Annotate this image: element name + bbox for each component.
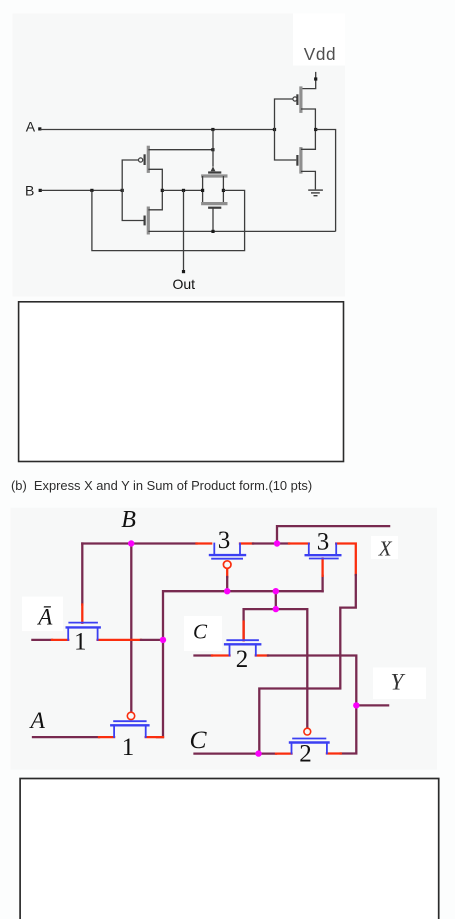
wire TG left column [202,176,204,204]
transistor 3a left post [213,544,215,556]
wire TG right column [222,176,224,204]
node w1-w2 dot [273,588,279,594]
node Vdd dot [314,77,317,80]
label Abar white patch [22,597,63,632]
wire 2a right to Y column [268,656,356,706]
svg-text:(b) Express X and Y in Sum of: (b) Express X and Y in Sum of Product fo… [11,478,312,493]
wire inverter output to bottom [316,130,336,232]
wire 3b right stub red [336,544,356,576]
transistor U4 NMOS gate plate [296,155,298,166]
wire node1 vertical [157,640,163,737]
svg-text:Y: Y [391,670,406,695]
transistor U3 PMOS channel [299,86,302,113]
wire Q1 drain stub [148,169,162,190]
wire Q1 source stub to A net [148,149,213,151]
node C dot [255,750,261,756]
svg-text:3: 3 [218,527,231,554]
transistor 2a left post [229,644,231,655]
transistor TG bottom gate plate [208,207,221,209]
CIRCUIT 1 (gray CMOS schematic) [25,44,336,292]
wire 3b gate red [321,559,323,576]
svg-text:3: 3 [317,529,330,556]
transistor Q1 PMOS channel [147,146,150,173]
wire 3b gate maroon [321,576,323,591]
node B junction dot left [90,189,93,192]
svg-text:X: X [378,536,393,560]
transistor 2b channel [290,741,329,743]
transistor TG bottom channel [201,202,227,205]
wire 1a left stub red [52,639,68,641]
transistor U3 PMOS gate plate [296,94,298,105]
node out-branch junction dot [182,189,185,192]
wire Q2 source stub / bottom rail to inverter output [148,230,335,232]
node A lead dot [38,127,41,130]
wire B drop to 1b bubble [130,544,132,713]
wire A line [40,129,275,131]
node inverter output dot [314,128,317,131]
Vdd label white patch [293,14,345,66]
wire Abar lead [32,639,52,641]
svg-text:A: A [26,119,36,135]
transistor 1b right post [145,725,147,737]
transistor Q2 NMOS gate plate [144,216,146,226]
wire 1a right to node [141,639,163,641]
transistor 1b channel [111,724,148,726]
transistor 2b bubble [304,728,311,735]
transistor 3b right post [335,544,337,556]
svg-text:A: A [29,708,46,734]
wire 3a bubble drop maroon [226,577,228,591]
node w2 dot [273,606,279,612]
wire 2b right stub red [327,752,341,754]
transistor 3b plate [310,558,338,560]
transistor 1a plate [69,622,97,624]
label scriptC white patch [184,616,222,651]
transistor 3a channel [210,554,245,556]
wire TG right terminal to B loop [92,190,245,250]
transistor Q1 PMOS gate plate [144,154,146,165]
transistor 3b left post [308,544,310,556]
transistor TG arrow [211,166,216,171]
circuit 2 background [11,508,438,770]
circuit 1 background [13,14,346,297]
node TG gate - bottom rail junction dot [211,230,214,233]
transistor 2b left post [291,743,293,754]
wire U4 NMOS source stub [301,171,315,189]
wire A lead [33,736,99,738]
transistor 2a plate [227,639,258,641]
transistor 1b left post [113,725,115,737]
node Out dot [182,270,185,273]
wire 2a gate red [242,622,244,641]
transistor TG top channel [201,174,227,177]
answer box 1 [19,302,344,462]
wire 3a left stub red [197,542,212,544]
answer box 2 [20,779,439,919]
wire middle node [162,189,202,191]
wire U4 NMOS drain stub [301,130,315,150]
wire U3 PMOS drain stub [301,109,315,130]
transistor 2b right post [326,743,328,754]
node X dot [274,540,280,546]
svg-text:B: B [121,507,136,533]
svg-text:1: 1 [74,629,87,656]
transistor 1a right post [97,627,99,640]
svg-text:Ā: Ā [36,605,53,630]
wire 3a bubble drop red [226,568,228,577]
node B gate junction dot [121,189,124,192]
wire 2a left stub red [212,654,230,656]
wire top B rail [82,542,196,544]
label Y white patch [373,668,426,700]
wire inverter gate net [275,99,297,160]
transistor 3a plate [212,558,242,560]
svg-text:B: B [25,183,34,199]
ground symbol [308,190,323,196]
transistor U4 NMOS channel [299,147,302,174]
svg-text:1: 1 [122,734,135,761]
label X white patch [371,536,398,559]
svg-text:Out: Out [173,276,196,292]
wire w2 branch [275,591,277,609]
svg-text:Vdd: Vdd [304,44,336,64]
node pass output dot [160,637,166,643]
transistor 3a bubble [223,561,231,569]
transistor 1b bubble [127,712,134,719]
transistor TG top gate plate [208,171,221,173]
wire Y column lower [341,705,357,753]
transistor 2b plate [293,738,325,740]
wire left gates net [122,160,143,221]
node 3a gate dot [224,588,230,594]
wire 1a gate red [81,605,83,623]
wire Y output lead [356,704,388,706]
wire X output [277,526,389,543]
wire w2 rail [244,609,308,728]
node drains junction dot [161,189,164,192]
wire 2a right stub red [256,654,268,656]
node TG left terminal dot [201,189,204,192]
node Y dot [353,702,359,708]
wire TG top gate [212,130,214,167]
wire B line [40,189,122,191]
wire Q2 drain stub [148,190,162,209]
svg-text:2: 2 [236,646,249,673]
transistor 3a right post [239,544,241,556]
transistor 2a right post [255,644,257,655]
wire 3b right down [259,575,356,754]
wire 1b right stub red [146,736,163,738]
wire 1a right stub red [98,639,141,641]
transistor U3 PMOS bubble [293,97,297,101]
transistor Q2 NMOS channel [147,207,150,235]
node A-TG junction dot [211,128,214,131]
transistor 1a channel [67,626,100,628]
wire Vdd lead [301,72,316,89]
node TG right terminal dot [222,189,225,192]
wire 1b left stub red [99,736,114,738]
node B dot [128,540,134,546]
transistor 2a channel [225,643,260,645]
node Q1-A junction dot [211,148,214,151]
svg-text:C: C [190,725,208,754]
svg-text:2: 2 [299,741,312,768]
transistor 1b plate [114,720,146,722]
wire X node link [253,542,289,544]
wire Out branch [183,190,185,271]
wire C lead to 2a [195,654,213,656]
wire C bottom lead [195,752,277,754]
node B lead dot [39,189,42,192]
wire gate net w1 [163,591,323,640]
svg-text:C: C [193,620,208,644]
transistor Q1 PMOS bubble [139,158,143,162]
wire TG bottom gate [212,208,214,232]
wire 2b left stub red [276,752,292,754]
wire 3a right stub red [240,542,253,544]
transistor 1a left post [67,627,69,640]
transistor 3b channel [306,554,341,556]
wire 3b left stub red [289,542,309,544]
CIRCUIT 2 (colored pass-transistor schematic) [22,507,426,768]
wire 1a gate drop [81,544,83,605]
node A-invgate junction dot [273,128,276,131]
